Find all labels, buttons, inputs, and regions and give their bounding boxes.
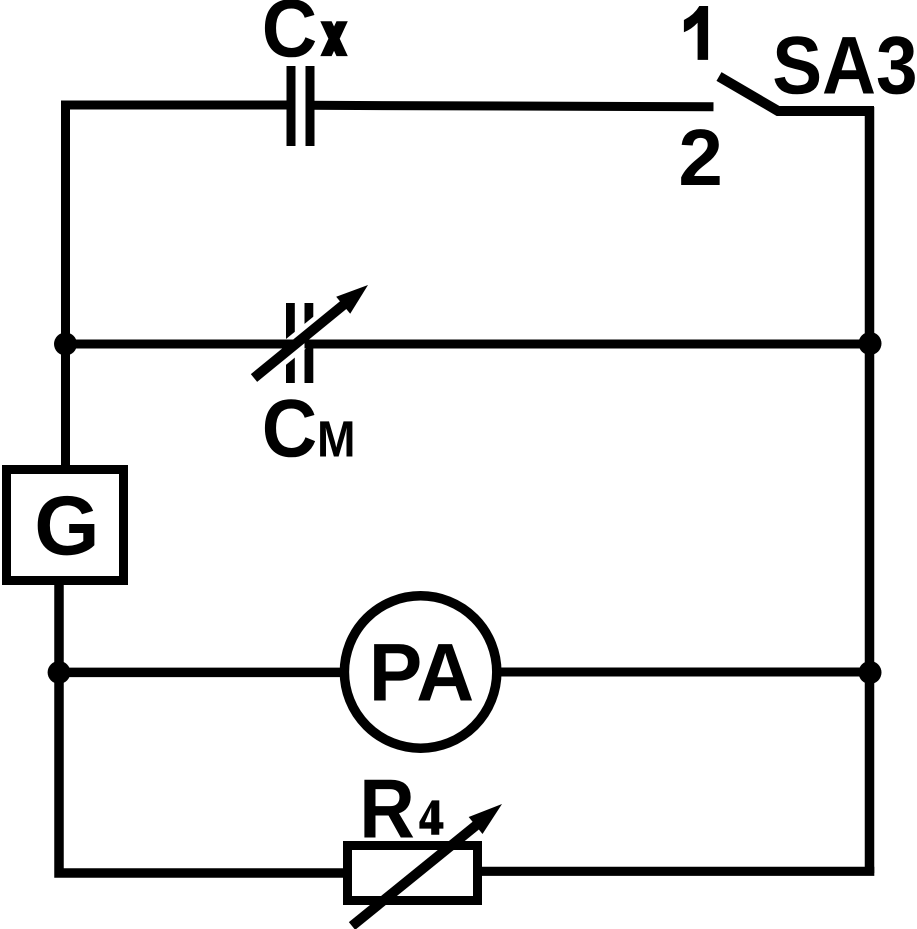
node junction dot right PA bbox=[859, 661, 882, 684]
wire top horizontal from Cx right plate to switch contact bbox=[309, 105, 714, 107]
svg-text:M: M bbox=[317, 411, 356, 468]
R4 variable arrow shaft bbox=[352, 823, 479, 926]
white casing for CM arrow crossing plates bbox=[254, 285, 368, 378]
switch SA3 blade and wire to right vertical bbox=[719, 77, 874, 112]
capacitor C_x left plate bbox=[287, 66, 296, 146]
capacitor C_M left plate bbox=[286, 303, 295, 383]
wire right vertical bbox=[865, 107, 875, 873]
CM variable arrow shaft bbox=[254, 302, 347, 378]
wire CM row right segment bbox=[305, 340, 870, 349]
wire top-left horizontal (left vertical to Cx left plate) + left vertical down to G bbox=[66, 105, 292, 465]
svg-text:G: G bbox=[34, 478, 99, 572]
R4 arrowhead bbox=[469, 804, 502, 834]
svg-text:PA: PA bbox=[369, 628, 475, 719]
capacitor C_x right plate bbox=[306, 66, 315, 146]
wire PA row right segment bbox=[497, 668, 870, 677]
CM arrowhead bbox=[336, 285, 368, 314]
wire bottom right segment R4 to right vertical bbox=[482, 867, 874, 876]
svg-text:2: 2 bbox=[678, 113, 723, 202]
svg-text:C: C bbox=[262, 0, 318, 75]
ammeter PA circle bbox=[344, 596, 496, 748]
wire PA row left segment bbox=[59, 668, 345, 678]
generator G box bbox=[7, 470, 124, 581]
wire CM row left segment bbox=[66, 340, 296, 349]
node junction dot left PA bbox=[48, 661, 71, 684]
switch contact label 1 bbox=[684, 6, 708, 60]
svg-text:C: C bbox=[262, 384, 318, 475]
node junction dot right CM bbox=[859, 332, 882, 355]
svg-text:R: R bbox=[359, 762, 415, 856]
capacitor C_M right plate bbox=[305, 303, 314, 383]
svg-text:SA3: SA3 bbox=[772, 21, 917, 112]
wire left vertical G to bottom + bottom wire to R4 bbox=[59, 585, 343, 873]
resistor R4 box bbox=[348, 846, 478, 901]
node junction dot left CM bbox=[54, 333, 77, 356]
